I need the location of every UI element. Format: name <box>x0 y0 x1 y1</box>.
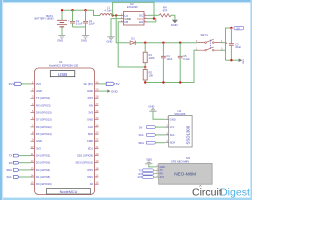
wire switch to 5V node <box>221 28 232 60</box>
capacitor C3 <box>226 28 242 60</box>
svg-text:GPS NEO-M8N: GPS NEO-M8N <box>171 160 189 164</box>
label 3V3 flag at pin 1 <box>9 82 22 86</box>
wire 3V3 flag to GPS pin1 <box>154 176 155 178</box>
svg-text:SCL: SCL <box>170 133 176 137</box>
capacitor C5 <box>178 43 190 83</box>
svg-text:EN: EN <box>89 103 93 107</box>
wire main 5V row to switch <box>135 42 197 44</box>
wire LX to diode <box>116 16 129 43</box>
capacitor C2 <box>83 10 95 27</box>
module U1 NodeMCU ESP8266-12E <box>35 60 95 195</box>
svg-text:KEY1: KEY1 <box>201 33 209 37</box>
svg-text:USB: USB <box>58 72 67 77</box>
svg-text:SD1: SD1 <box>88 146 94 150</box>
ground arrow right of C3 <box>239 58 244 64</box>
svg-text:FB: FB <box>125 20 129 24</box>
wire to OLED Vcc <box>156 126 165 128</box>
svg-text:0.1uF: 0.1uF <box>76 22 83 26</box>
wire to OLED SDA <box>156 142 165 144</box>
svg-text:GND: GND <box>242 59 244 64</box>
svg-text:D6 (GPIO12): D6 (GPIO12) <box>36 125 52 129</box>
svg-text:TX (GPIO1): TX (GPIO1) <box>36 96 50 100</box>
junction node LX loop tap <box>111 14 113 16</box>
svg-text:RSV: RSV <box>87 168 93 172</box>
svg-text:D5 (GPIO14): D5 (GPIO14) <box>36 132 52 136</box>
svg-text:5V: 5V <box>116 82 120 86</box>
wire cap bottoms <box>73 27 86 35</box>
svg-text:SCL: SCL <box>7 175 13 179</box>
svg-text:D1 (GPIO5): D1 (GPIO5) <box>36 175 50 179</box>
svg-text:D0 (GPIO16): D0 (GPIO16) <box>36 182 52 186</box>
ground under battery <box>57 36 65 43</box>
junction dots main row <box>144 42 181 69</box>
svg-text:SD2 (GPIO9): SD2 (GPIO9) <box>77 154 93 158</box>
capacitor C4 <box>161 43 173 83</box>
wire U2 GND pin to ground <box>111 19 121 37</box>
label SDA flag at OLED <box>138 141 155 145</box>
svg-text:D3 (GPIO0): D3 (GPIO0) <box>36 161 50 165</box>
svg-text:100K: 100K <box>149 56 155 60</box>
power flag 5V at pin 30 <box>99 82 120 86</box>
svg-text:3V3: 3V3 <box>36 146 41 150</box>
wire TX flag to GPS pin3 <box>154 169 155 171</box>
svg-text:GND: GND <box>36 89 42 93</box>
wire R4 to ground <box>171 15 175 19</box>
svg-text:GND: GND <box>87 89 93 93</box>
svg-text:0.1uF: 0.1uF <box>183 57 190 61</box>
ground arrow under R4 <box>171 20 179 27</box>
ground arrow at pin 29 <box>99 89 119 93</box>
svg-text:NodeMCU: NodeMCU <box>60 190 78 194</box>
junction VCC node <box>153 17 155 19</box>
resistor R2 <box>143 67 153 83</box>
ground above OLED <box>148 105 156 112</box>
svg-text:RX: RX <box>139 172 143 176</box>
label TX flag at GPS <box>139 168 154 172</box>
wire loop VIN over U2 <box>113 2 154 18</box>
svg-text:47R: 47R <box>163 8 168 12</box>
svg-text:5V: 5V <box>236 26 240 30</box>
module U4 SSD1306 <box>165 109 192 147</box>
wire GPS gnd <box>149 164 155 167</box>
junction dots bottom rail <box>144 81 181 83</box>
nodemcu right pin numbers <box>96 80 99 184</box>
svg-text:GND: GND <box>36 139 42 143</box>
boost converter U2 ETA1036 <box>121 2 148 25</box>
svg-text:CMD: CMD <box>87 139 93 143</box>
svg-text:3V3: 3V3 <box>138 175 143 179</box>
ground under C2 <box>81 36 89 43</box>
svg-text:TX: TX <box>9 154 13 158</box>
page border frame <box>0 0 252 200</box>
svg-text:10uF: 10uF <box>235 45 241 49</box>
wire RX flag to GPS pin2 <box>154 173 155 175</box>
svg-text:GND: GND <box>170 117 176 121</box>
svg-text:RX: RX <box>9 161 13 165</box>
resistor R1 <box>143 43 155 67</box>
label SDA flag at pin 13 <box>6 168 19 172</box>
label 5V flag at OLED Vcc <box>139 125 155 129</box>
svg-text:CLK: CLK <box>88 125 93 129</box>
svg-text:NodeMCU ESP8266-12E: NodeMCU ESP8266-12E <box>49 63 79 67</box>
wire to OLED SCL <box>156 134 165 136</box>
svg-text:SDA: SDA <box>6 168 12 172</box>
wire RX flag to pin12 <box>19 162 30 164</box>
svg-text:GND: GND <box>87 118 93 122</box>
inductor L1 <box>100 6 112 16</box>
label RX flag at pin 12 <box>9 161 19 165</box>
diode D1 <box>130 36 135 44</box>
ground above GPS <box>145 157 152 163</box>
svg-text:RST: RST <box>88 96 94 100</box>
svg-text:SDA: SDA <box>138 141 144 145</box>
junction dots on top rail <box>61 9 87 11</box>
nodemcu left pin names <box>36 82 52 186</box>
wire C3 bottom to ground <box>226 59 239 61</box>
wire SCL flag to pin14 <box>19 176 30 178</box>
svg-text:U1: U1 <box>59 60 63 64</box>
svg-text:GND: GND <box>171 23 179 27</box>
wire 3V3 flag to pin1 <box>22 83 31 85</box>
svg-text:RX (GPIO3): RX (GPIO3) <box>36 103 51 107</box>
nodemcu left pins <box>31 84 35 184</box>
svg-text:4.7uH: 4.7uH <box>104 9 111 13</box>
label SCL flag at pin 14 <box>7 175 20 179</box>
svg-text:Digest: Digest <box>220 187 250 199</box>
wire SDA flag to pin13 <box>19 169 30 171</box>
junction 5V node <box>230 27 232 29</box>
svg-text:M1: M1 <box>186 156 190 160</box>
wire inductor to U2 <box>112 15 120 17</box>
svg-text:D4 (GPIO2): D4 (GPIO2) <box>36 154 50 158</box>
svg-text:10K: 10K <box>149 74 154 78</box>
svg-text:3V3: 3V3 <box>88 111 93 115</box>
svg-text:D7 (GPIO13): D7 (GPIO13) <box>36 118 52 122</box>
wire VCC to EN tie <box>148 19 156 22</box>
nodemcu right pin names <box>76 82 94 186</box>
wire top rail from battery to inductor <box>62 10 100 15</box>
svg-text:3V3: 3V3 <box>36 82 41 86</box>
nodemcu left pin numbers <box>31 80 34 184</box>
module M1 GPS NEO-M8N <box>155 156 212 184</box>
svg-text:D2 (GPIO4): D2 (GPIO4) <box>36 168 50 172</box>
label SCL flag at OLED <box>139 133 156 137</box>
label 3V3 flag at GPS <box>138 175 154 179</box>
svg-text:BATTERY-18650: BATTERY-18650 <box>35 17 54 20</box>
resistor R4 <box>159 5 171 17</box>
svg-text:5V: 5V <box>139 125 143 129</box>
svg-text:SD3 (GPIO10): SD3 (GPIO10) <box>76 161 94 165</box>
svg-text:GND: GND <box>57 38 63 42</box>
svg-text:RSV: RSV <box>87 175 93 179</box>
battery BAT1 <box>35 10 70 35</box>
nodemcu right pins <box>95 84 99 184</box>
svg-text:SSD1306: SSD1306 <box>186 125 191 144</box>
svg-text:GND: GND <box>81 38 87 42</box>
svg-text:SD0: SD0 <box>88 132 94 136</box>
ground under U2 <box>106 37 114 44</box>
power flag 5V <box>234 26 244 30</box>
svg-text:NEO-M8M: NEO-M8M <box>174 172 196 177</box>
svg-text:D1: D1 <box>131 36 135 40</box>
wire OC to R4 <box>148 14 159 16</box>
label RX flag at GPS <box>139 172 154 176</box>
label TX flag at pin 11 <box>9 154 19 158</box>
svg-text:Circuit: Circuit <box>192 187 222 199</box>
svg-text:SDA: SDA <box>170 141 176 145</box>
wire FB to divider <box>118 22 145 67</box>
switch KEY1 <box>196 33 223 51</box>
svg-text:3V3: 3V3 <box>160 176 165 179</box>
svg-text:GND: GND <box>111 89 119 93</box>
svg-text:A0: A0 <box>90 182 94 186</box>
svg-text:TX: TX <box>139 168 143 172</box>
svg-text:3V3: 3V3 <box>9 82 15 86</box>
wire TX flag to pin11 <box>19 155 30 157</box>
svg-text:SCL: SCL <box>139 133 145 137</box>
svg-text:Vcc: Vcc <box>170 125 175 129</box>
svg-text:Vin (5V): Vin (5V) <box>83 82 93 86</box>
wire OLED gnd <box>153 112 165 120</box>
svg-text:GND: GND <box>106 40 112 44</box>
CircuitDigest logo <box>192 185 250 198</box>
svg-text:D8 (GPIO15): D8 (GPIO15) <box>36 111 52 115</box>
svg-text:ETA1036: ETA1036 <box>127 5 138 9</box>
junction C3 ground node <box>230 59 232 61</box>
svg-text:22uF: 22uF <box>89 22 95 26</box>
svg-text:10uF: 10uF <box>166 57 172 61</box>
wire bottom rail of divider <box>145 50 197 82</box>
svg-text:SSD1306: SSD1306 <box>174 112 186 116</box>
junction node LX diode tap <box>115 14 117 16</box>
svg-text:EN: EN <box>139 20 143 24</box>
capacitor C1 <box>70 10 83 27</box>
